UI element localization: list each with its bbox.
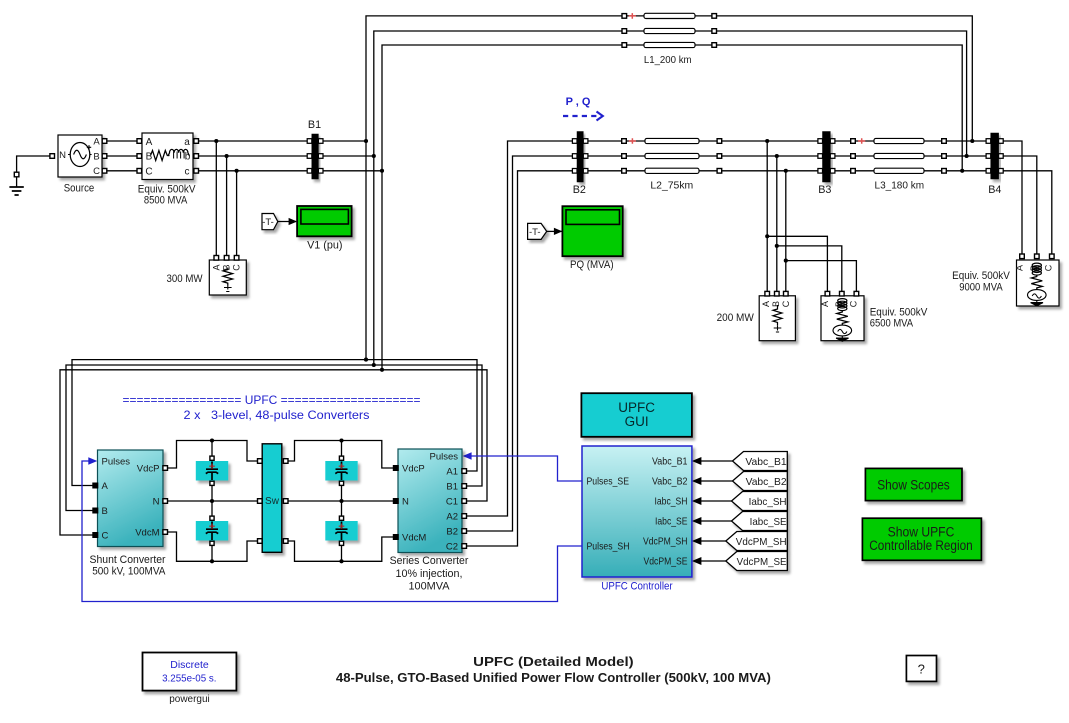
svg-text:B1: B1 bbox=[446, 482, 458, 493]
capacitor C2 (lower left) bbox=[196, 521, 228, 541]
svg-text:A: A bbox=[820, 301, 830, 307]
wire load 300MW feeder phase B bbox=[226, 156, 228, 258]
bus bar B2 bbox=[577, 132, 583, 183]
svg-text:Iabc_SH: Iabc_SH bbox=[655, 497, 688, 508]
svg-text:VdcPM_SH: VdcPM_SH bbox=[736, 536, 787, 548]
wire load 200MW feeder phase B bbox=[776, 156, 778, 294]
wire node B to shunt B and series B1 bbox=[66, 365, 482, 511]
UPFC GUI block bbox=[581, 393, 692, 437]
button Show UPFC Controllable Region bbox=[862, 518, 981, 560]
svg-text:VdcPM_SH: VdcPM_SH bbox=[643, 537, 688, 548]
arrowhead pulses into shunt converter bbox=[88, 457, 97, 465]
svg-text:C1: C1 bbox=[446, 497, 458, 508]
wire from-tag Iabc_SE to controller bbox=[701, 520, 734, 522]
svg-text:UPFC Controller: UPFC Controller bbox=[601, 580, 673, 592]
svg-text:6500 MVA: 6500 MVA bbox=[870, 317, 914, 329]
wire tap to equiv6500 A bbox=[767, 236, 827, 293]
wire source A to equiv A bbox=[105, 140, 140, 142]
wire pulses_SH to shunt converter (blue) bbox=[82, 461, 582, 602]
svg-text:?: ? bbox=[918, 662, 925, 677]
wire from-tag VdcPM_SE to controller bbox=[701, 560, 734, 562]
wire right cap leg mid-lower bbox=[341, 501, 343, 522]
equivalent source block Equiv. 500kV 8500 MVA bbox=[142, 133, 193, 180]
wire load 300MW feeder phase C bbox=[236, 171, 238, 258]
label L1_200 km bbox=[644, 55, 692, 66]
wire load 200MW feeder phase A bbox=[766, 141, 768, 294]
wire L1 loop phase C bbox=[382, 45, 962, 370]
svg-text:P , Q: P , Q bbox=[566, 96, 591, 108]
wire from-tag VdcPM_SH to controller bbox=[701, 540, 734, 542]
arrowhead into V1 display bbox=[289, 218, 298, 225]
svg-text:8500 MVA: 8500 MVA bbox=[144, 195, 188, 207]
wire left cap leg top bbox=[211, 441, 213, 463]
svg-text:B: B bbox=[771, 301, 781, 307]
wire tap to equiv6500 B bbox=[777, 246, 842, 294]
wire series C2 to bus B2 phase C bbox=[464, 171, 575, 546]
from tag for PQ display bbox=[528, 223, 547, 239]
wire equiv b to bus B1 bbox=[196, 155, 309, 157]
transmission line L3_180km bbox=[874, 138, 924, 173]
svg-text:C: C bbox=[145, 166, 152, 177]
wire load 200MW feeder phase C bbox=[785, 171, 787, 294]
svg-text:Shunt Converter: Shunt Converter bbox=[90, 554, 166, 566]
ports of series converter dc side bbox=[394, 466, 399, 540]
svg-text:VdcM: VdcM bbox=[135, 528, 159, 539]
wire L2 to B3 phase C bbox=[722, 170, 821, 172]
ports of equiv 9000 bbox=[1020, 254, 1054, 259]
ports of series converter outputs bbox=[462, 469, 467, 549]
ports of load 300MW bbox=[214, 256, 239, 261]
wire B3 to L3 phase A bbox=[833, 140, 851, 142]
port of ground block bbox=[14, 172, 19, 177]
load block 300 MW bbox=[209, 260, 246, 295]
ports of load 200MW bbox=[765, 291, 788, 296]
svg-text:9000 MVA: 9000 MVA bbox=[959, 281, 1003, 293]
svg-text:Pulses_SH: Pulses_SH bbox=[587, 542, 630, 553]
wire left cap leg bottom bbox=[211, 540, 213, 562]
button Show Scopes bbox=[865, 468, 962, 500]
DC switch block Sw bbox=[262, 444, 282, 553]
PQ measurement display bbox=[562, 206, 622, 256]
wire from-tag Vabc_B2 to controller bbox=[701, 480, 734, 482]
capacitor C1 (upper left) bbox=[196, 461, 228, 481]
svg-text:Iabc_SE: Iabc_SE bbox=[655, 517, 688, 528]
from tag Iabc_SE bbox=[732, 512, 788, 531]
svg-text:VdcPM_SE: VdcPM_SE bbox=[737, 556, 787, 568]
shunt converter block bbox=[98, 450, 164, 547]
svg-text:Pulses: Pulses bbox=[102, 457, 131, 468]
ports of equiv 6500 bbox=[825, 291, 859, 296]
wire B1 to node B bbox=[321, 155, 374, 157]
svg-text:L1_200 km: L1_200 km bbox=[644, 55, 692, 66]
ports of shunt converter inputs bbox=[93, 483, 98, 537]
wire equiv c to bus B1 bbox=[196, 170, 309, 172]
transmission line L2_75km bbox=[645, 138, 699, 173]
transmission line L1_200km bbox=[644, 13, 695, 47]
svg-text:Discrete: Discrete bbox=[170, 659, 209, 671]
label L3_180 km bbox=[875, 181, 925, 192]
svg-text:B: B bbox=[93, 151, 99, 162]
wire L3 to B4 phase A bbox=[946, 140, 988, 142]
svg-text:Vabc_B2: Vabc_B2 bbox=[652, 477, 688, 488]
polarity mark + on L3 bbox=[858, 138, 865, 144]
wire L1 loop phase B bbox=[374, 31, 967, 365]
wire L3 to B4 phase C bbox=[946, 170, 988, 172]
wire L3 internal phase A bbox=[855, 140, 942, 142]
svg-text:-T-: -T- bbox=[262, 217, 274, 228]
svg-text:C: C bbox=[1044, 264, 1054, 271]
ports of bus B4 bbox=[986, 139, 1003, 173]
wire tag to V1 display bbox=[278, 221, 297, 223]
UPFC Controller block bbox=[582, 446, 692, 577]
svg-text:N: N bbox=[402, 497, 409, 508]
source block (Source) bbox=[58, 135, 102, 177]
wire L2 internal phase A bbox=[627, 140, 718, 142]
ports of shunt converter dc side bbox=[163, 466, 168, 535]
wire B3 to L3 phase B bbox=[833, 155, 851, 157]
svg-text:L3_180 km: L3_180 km bbox=[875, 181, 925, 192]
svg-text:Series Converter: Series Converter bbox=[390, 555, 469, 567]
label Equiv. 500kV 8500 MVA bbox=[138, 184, 196, 207]
arrowhead Vabc_B2 into controller bbox=[692, 477, 702, 485]
svg-text:A: A bbox=[102, 481, 109, 492]
label 300 MW bbox=[167, 273, 204, 285]
wire source C to equiv C bbox=[105, 170, 140, 172]
svg-text:PQ (MVA): PQ (MVA) bbox=[570, 259, 614, 271]
wire from-tag Vabc_B1 to controller bbox=[701, 460, 734, 462]
bus bar B3 bbox=[823, 132, 831, 183]
svg-text:Iabc_SE: Iabc_SE bbox=[750, 516, 787, 528]
svg-text:3.255e-05 s.: 3.255e-05 s. bbox=[162, 673, 216, 685]
wire L2 to B3 phase A bbox=[722, 140, 821, 142]
ports of capacitors bbox=[210, 456, 344, 545]
wire shunt VdcP to Sw top rail bbox=[165, 441, 260, 469]
svg-text:VdcP: VdcP bbox=[402, 464, 425, 475]
arrowhead Iabc_SE into controller bbox=[692, 517, 702, 525]
svg-text:Show Scopes: Show Scopes bbox=[877, 478, 950, 493]
svg-text:VdcM: VdcM bbox=[402, 533, 426, 544]
junctions 200MW feeder taps bbox=[765, 139, 788, 173]
svg-text:Sw: Sw bbox=[265, 496, 280, 507]
wire L2 internal phase C bbox=[627, 170, 718, 172]
wire tap to equiv6500 C bbox=[786, 261, 857, 294]
svg-text:48-Pulse, GTO-Based Unified Po: 48-Pulse, GTO-Based Unified Power Flow C… bbox=[336, 671, 771, 685]
svg-text:100MVA: 100MVA bbox=[409, 581, 451, 593]
wire pulses_SE to series converter (blue) bbox=[470, 456, 582, 481]
wire node C to shunt C and series C1 bbox=[60, 370, 487, 535]
svg-text:================= UPFC =======: ================= UPFC =================… bbox=[123, 395, 421, 407]
svg-text:B: B bbox=[102, 506, 108, 517]
label Shunt Converter bbox=[90, 554, 167, 577]
junctions 300MW feeder taps bbox=[214, 139, 238, 173]
bus bar B4 bbox=[991, 133, 999, 179]
svg-text:C: C bbox=[849, 300, 859, 307]
wire L2 to B3 phase B bbox=[722, 155, 821, 157]
label V1 (pu) bbox=[307, 240, 342, 252]
from tag for V1 display bbox=[262, 214, 278, 230]
label P,Q annotation bbox=[563, 96, 603, 121]
label Equiv. 500kV 9000 MVA bbox=[952, 270, 1010, 293]
svg-text:N: N bbox=[153, 497, 160, 508]
svg-text:A2: A2 bbox=[446, 512, 458, 523]
wire L3 internal phase B bbox=[855, 155, 942, 157]
V1 measurement display bbox=[297, 206, 352, 236]
label PQ (MVA) bbox=[570, 259, 614, 271]
svg-text:UPFC: UPFC bbox=[618, 400, 655, 415]
label UPFC header bbox=[123, 395, 421, 422]
junctions bus B1 to loop nodes bbox=[364, 139, 384, 173]
wire B1 to node A bbox=[321, 140, 366, 142]
svg-text:powergui: powergui bbox=[169, 694, 210, 705]
svg-text:B2: B2 bbox=[573, 184, 586, 196]
title annotation bbox=[336, 655, 771, 685]
label B4 bbox=[988, 184, 1001, 196]
wire right cap leg mid-upper bbox=[341, 480, 343, 502]
svg-text:C: C bbox=[231, 264, 241, 271]
ports of source block bbox=[50, 139, 107, 173]
svg-text:-T-: -T- bbox=[529, 227, 541, 238]
powergui block bbox=[143, 653, 237, 691]
arrowhead Iabc_SH into controller bbox=[692, 497, 702, 505]
svg-text:2 x 3-level, 48-pulse Conver: 2 x 3-level, 48-pulse Converters bbox=[184, 410, 370, 422]
svg-text:N: N bbox=[59, 150, 66, 161]
capacitor C3 (upper right) bbox=[325, 461, 357, 481]
ports of line L3 bbox=[851, 139, 947, 173]
wire Sw to series N bbox=[286, 500, 396, 502]
svg-text:L2_75km: L2_75km bbox=[650, 181, 693, 192]
svg-text:A: A bbox=[146, 137, 153, 148]
svg-text:B4: B4 bbox=[988, 184, 1001, 196]
wire right cap leg top bbox=[341, 441, 343, 463]
svg-text:200 MW: 200 MW bbox=[717, 312, 755, 324]
label UPFC Controller bbox=[601, 580, 673, 592]
svg-text:VdcP: VdcP bbox=[137, 464, 160, 475]
svg-text:C2: C2 bbox=[446, 542, 458, 553]
label B2 bbox=[573, 184, 586, 196]
svg-text:Vabc_B1: Vabc_B1 bbox=[652, 457, 688, 468]
label B3 bbox=[818, 184, 831, 196]
wire left cap leg mid-upper bbox=[211, 480, 213, 502]
wire B4 to equiv9000 C bbox=[1001, 171, 1052, 256]
svg-text:Pulses: Pulses bbox=[429, 452, 458, 463]
wire B3 to L3 phase C bbox=[833, 170, 851, 172]
wire L3 internal phase C bbox=[855, 170, 942, 172]
svg-text:C: C bbox=[93, 166, 100, 177]
wire source B to equiv B bbox=[105, 155, 140, 157]
wire B2 to L2 phase A bbox=[586, 140, 622, 142]
wire shunt VdcM to Sw bottom rail bbox=[165, 532, 260, 561]
svg-text:a: a bbox=[184, 137, 190, 148]
svg-text:C: C bbox=[781, 300, 791, 307]
from tag Iabc_SH bbox=[732, 492, 788, 511]
svg-text:Pulses_SE: Pulses_SE bbox=[587, 477, 630, 488]
wire B4 to equiv9000 B bbox=[1001, 156, 1037, 256]
svg-text:300 MW: 300 MW bbox=[167, 273, 204, 285]
svg-text:Vabc_B2: Vabc_B2 bbox=[746, 476, 787, 488]
svg-text:A: A bbox=[211, 264, 221, 270]
polarity mark + on L1 bbox=[629, 13, 636, 19]
arrowhead VdcPM_SH into controller bbox=[692, 537, 702, 545]
series converter block bbox=[398, 449, 462, 553]
ports of bus B2 bbox=[572, 139, 587, 173]
wire B2 to L2 phase B bbox=[586, 155, 622, 157]
wire shunt N to Sw bbox=[165, 500, 260, 502]
svg-text:A: A bbox=[93, 137, 100, 148]
equivalent source block Equiv. 500kV 9000 MVA bbox=[1014, 260, 1059, 306]
label Source bbox=[64, 183, 95, 195]
ports of equiv 8500 block bbox=[137, 139, 199, 173]
wire B2 to L2 phase C bbox=[586, 170, 622, 172]
ports of line L2 bbox=[622, 139, 722, 173]
wire left cap leg mid-lower bbox=[211, 501, 213, 522]
wire node A to shunt A and series A1 bbox=[72, 360, 477, 486]
wire equiv a to bus B1 bbox=[196, 140, 309, 142]
wire ground to source N bbox=[17, 156, 52, 187]
svg-text:UPFC (Detailed Model): UPFC (Detailed Model) bbox=[473, 655, 634, 669]
label Series Converter bbox=[390, 555, 469, 593]
ports of Sw block bbox=[258, 459, 289, 544]
svg-text:V1 (pu): V1 (pu) bbox=[307, 240, 342, 252]
from tag VdcPM_SH bbox=[726, 532, 788, 551]
wire L1 loop phase A bbox=[366, 16, 972, 360]
svg-text:Source: Source bbox=[64, 183, 95, 195]
arrowhead VdcPM_SE into controller bbox=[692, 557, 702, 565]
polarity mark + on L2 bbox=[629, 138, 636, 144]
svg-text:500 kV, 100MVA: 500 kV, 100MVA bbox=[92, 565, 166, 577]
arrowhead pulses into series converter bbox=[463, 452, 472, 460]
svg-text:10% injection,: 10% injection, bbox=[396, 568, 463, 580]
svg-text:B2: B2 bbox=[446, 527, 458, 538]
junctions equiv6500 taps bbox=[765, 234, 788, 262]
label 200 MW bbox=[717, 312, 755, 324]
svg-text:Controllable Region: Controllable Region bbox=[869, 538, 972, 553]
ports of line L1 bbox=[622, 14, 717, 48]
wire load 300MW feeder phase A bbox=[215, 141, 217, 258]
svg-text:A: A bbox=[761, 301, 771, 307]
svg-text:GUI: GUI bbox=[625, 414, 649, 429]
wire L2 internal phase B bbox=[627, 155, 718, 157]
from tag VdcPM_SE bbox=[726, 552, 788, 571]
label L2_75km bbox=[650, 181, 693, 192]
svg-text:Iabc_SH: Iabc_SH bbox=[749, 496, 787, 508]
wire from-tag Iabc_SH to controller bbox=[701, 500, 734, 502]
svg-text:VdcPM_SE: VdcPM_SE bbox=[644, 557, 688, 568]
svg-text:B1: B1 bbox=[308, 119, 321, 131]
ground symbol bbox=[9, 187, 23, 195]
bus bar B1 bbox=[312, 134, 319, 179]
junctions L1 loop at B4 bbox=[960, 139, 974, 173]
wire series B2 to bus B2 phase B bbox=[464, 156, 575, 531]
ports of bus B3 bbox=[818, 139, 835, 173]
wire tag to PQ display bbox=[547, 230, 562, 232]
wire Sw to series VdcM bottom rail bbox=[286, 537, 396, 561]
svg-text:Vabc_B1: Vabc_B1 bbox=[745, 456, 786, 468]
arrowhead Vabc_B1 into controller bbox=[692, 457, 702, 465]
capacitor C4 (lower right) bbox=[325, 521, 357, 541]
label B1 bbox=[308, 119, 321, 131]
load block 200 MW bbox=[759, 296, 795, 341]
wire Sw to series VdcP top rail bbox=[286, 441, 396, 469]
junctions UPFC feeder taps bbox=[364, 358, 384, 372]
wire series A2 to bus B2 phase A bbox=[464, 141, 575, 516]
equivalent source block Equiv. 500kV 6500 MVA bbox=[820, 296, 864, 342]
from tag Vabc_B1 bbox=[733, 452, 788, 471]
label powergui bbox=[169, 694, 210, 705]
ports of bus B1 bbox=[307, 139, 323, 173]
help block ? bbox=[906, 656, 936, 682]
wire right cap leg bottom bbox=[341, 540, 343, 562]
arrowhead into PQ display bbox=[554, 228, 563, 235]
svg-text:B3: B3 bbox=[818, 184, 831, 196]
wire L3 to B4 phase B bbox=[946, 155, 988, 157]
wire B4 to equiv9000 A bbox=[1001, 141, 1022, 256]
wire B1 to node C bbox=[321, 170, 382, 172]
svg-text:C: C bbox=[102, 531, 109, 542]
label Equiv. 500kV 6500 MVA bbox=[870, 307, 928, 330]
svg-text:A1: A1 bbox=[446, 467, 458, 478]
svg-text:c: c bbox=[185, 166, 190, 177]
from tag Vabc_B2 bbox=[733, 472, 788, 491]
svg-text:A: A bbox=[1014, 265, 1024, 271]
junctions DC rails at capacitors bbox=[210, 438, 344, 563]
